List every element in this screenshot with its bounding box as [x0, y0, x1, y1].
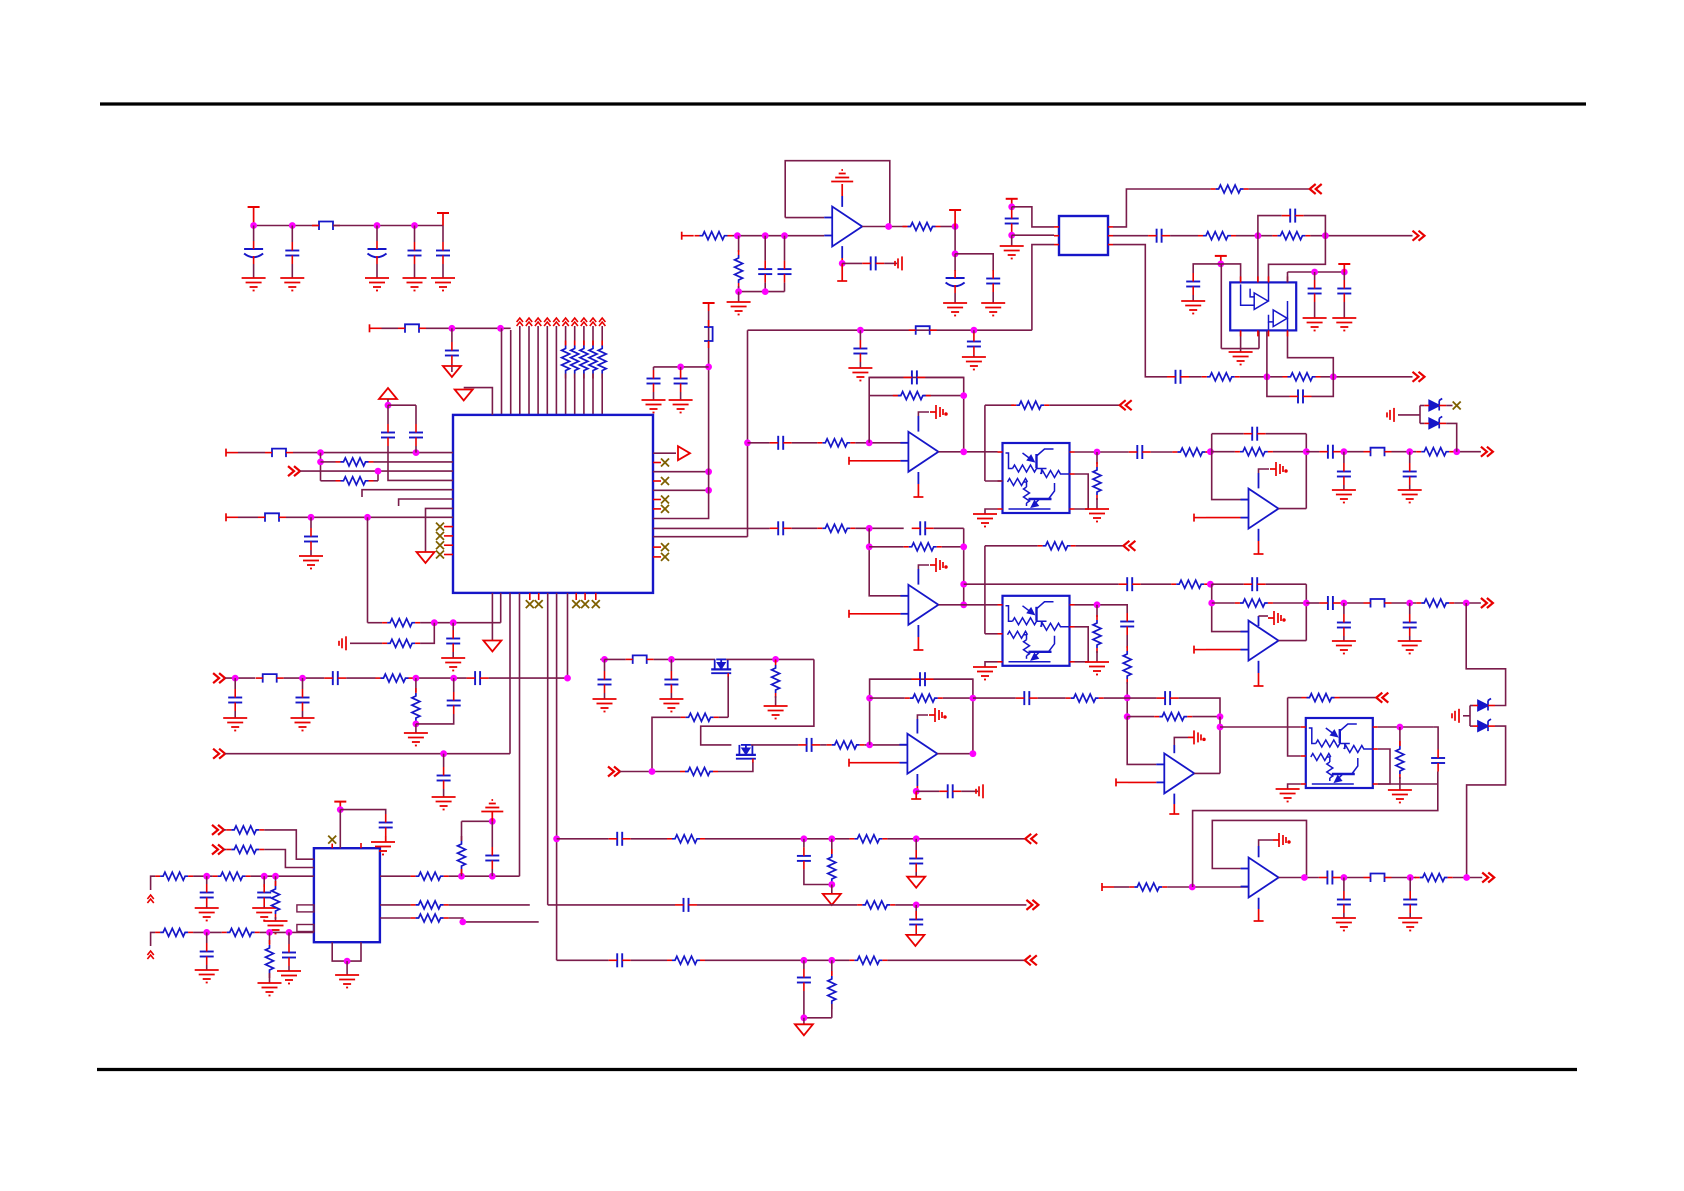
- wire: [519, 593, 521, 876]
- capacitor C66: [200, 951, 214, 953]
- junction: [1406, 448, 1413, 455]
- wire: [415, 721, 417, 724]
- capacitor C45: [1175, 370, 1177, 384]
- junction: [705, 468, 712, 475]
- opamp power: [1188, 730, 1205, 744]
- wire: [653, 489, 709, 491]
- junction: [299, 675, 306, 682]
- wire: [193, 931, 222, 933]
- power: [1011, 199, 1013, 207]
- wire: [557, 959, 609, 961]
- wire: [973, 330, 975, 333]
- wire: [1141, 583, 1172, 585]
- resistor R10: [1177, 448, 1205, 456]
- capacitor C47: [1186, 281, 1200, 283]
- IC T1: [1059, 216, 1108, 255]
- junction: [364, 514, 371, 521]
- wire: [350, 642, 382, 644]
- power VCC2: [442, 213, 444, 226]
- wire: [1258, 529, 1260, 541]
- power VCC1: [253, 207, 255, 226]
- wire: [416, 714, 454, 724]
- port in: [212, 825, 224, 835]
- wire: [831, 1004, 833, 1018]
- junction: [1094, 601, 1101, 608]
- junction: [289, 222, 296, 229]
- ground: [1229, 352, 1253, 365]
- IC U10: [314, 848, 380, 942]
- wire: [382, 327, 399, 329]
- wire: [895, 904, 1026, 906]
- resistor R39: [387, 639, 415, 647]
- wire: [1279, 640, 1307, 642]
- wire: [444, 544, 453, 546]
- capacitor C65: [257, 892, 271, 894]
- wire: [917, 472, 919, 484]
- feedback cap loop: [1267, 377, 1290, 397]
- power: [339, 802, 341, 810]
- resistor R16: [1123, 651, 1131, 679]
- wire: [451, 328, 453, 342]
- wire: [915, 872, 917, 877]
- wire: [653, 556, 661, 558]
- capacitor C42: [1005, 218, 1019, 220]
- wire: [917, 416, 919, 432]
- resistor R14: [1093, 620, 1101, 648]
- junction: [866, 742, 873, 749]
- capacitor C70: [1023, 691, 1025, 705]
- op-amp U8 inner feedback loop: [1212, 820, 1306, 877]
- wire: [555, 326, 557, 415]
- no-connect: [436, 541, 444, 549]
- ground: [258, 983, 282, 996]
- junction: [232, 675, 239, 682]
- ground: [291, 718, 315, 731]
- junction: [952, 250, 959, 257]
- wire: [461, 821, 463, 834]
- junction: [337, 806, 344, 813]
- wire: [803, 839, 805, 848]
- resistor R37: [412, 693, 420, 721]
- wire: [1113, 245, 1167, 377]
- wire: [1341, 602, 1363, 604]
- wire: [917, 625, 919, 637]
- wire: [415, 446, 417, 453]
- wire: [748, 329, 1032, 331]
- resistor R6: [1016, 401, 1044, 409]
- wire: [151, 932, 156, 946]
- wire: [938, 451, 997, 453]
- junction: [1407, 874, 1414, 881]
- polarized capacitor C14: [946, 277, 965, 279]
- wire: [653, 311, 709, 519]
- junction: [450, 675, 457, 682]
- wire: [916, 786, 918, 791]
- junction: [497, 325, 504, 332]
- ferrite bead FB2: [405, 324, 419, 333]
- wire: [680, 367, 682, 370]
- wire: [842, 262, 862, 264]
- wire: [548, 904, 675, 906]
- op-amp U6 feedback: [1212, 584, 1249, 631]
- capacitor C18: [911, 370, 913, 384]
- no-connect: [328, 836, 336, 844]
- wire: [1321, 376, 1413, 378]
- no-connect: [436, 523, 444, 531]
- wire: [1257, 236, 1259, 283]
- capacitor C35: [919, 672, 921, 686]
- wire: [574, 326, 576, 346]
- wire: [1220, 726, 1301, 728]
- ground: [981, 303, 1005, 316]
- wire: [916, 774, 918, 786]
- junction: [801, 1014, 808, 1021]
- wire: [963, 528, 965, 605]
- wire: [887, 838, 1025, 840]
- junction: [857, 327, 864, 334]
- capacitor C9: [304, 536, 318, 538]
- wire: [792, 527, 818, 529]
- wire: [1340, 697, 1377, 699]
- resistor R2: [341, 477, 369, 485]
- wire: [985, 545, 1038, 547]
- supply stub: [917, 637, 919, 650]
- wire: [764, 236, 766, 261]
- wire: [444, 526, 453, 528]
- resistor R7: [822, 439, 850, 447]
- wire: [733, 235, 825, 237]
- resistor R51: [272, 886, 280, 914]
- wire: [1378, 726, 1433, 728]
- capacitor C22: [1126, 577, 1128, 591]
- junction: [308, 514, 315, 521]
- ground: [252, 908, 276, 921]
- ground: [1452, 709, 1459, 723]
- wire: [538, 593, 540, 600]
- ferrite bead FB4: [265, 513, 279, 522]
- capacitor C10: [647, 378, 661, 380]
- capacitor C15: [986, 278, 1000, 280]
- capacitor C23: [1120, 621, 1134, 623]
- wire: [701, 659, 814, 745]
- resistor R11: [822, 524, 850, 532]
- wire: [414, 677, 467, 679]
- resistor R53: [227, 928, 255, 936]
- junction: [272, 873, 279, 880]
- wire: [1151, 451, 1173, 453]
- wire: [340, 810, 385, 814]
- ferrite bead FB1: [319, 222, 333, 231]
- pin mark: [297, 905, 314, 912]
- wire: [583, 326, 585, 346]
- ground: [1085, 509, 1109, 522]
- wire: [775, 659, 777, 662]
- wire: [1266, 330, 1268, 376]
- junction: [866, 695, 873, 702]
- resistor R43: [862, 901, 890, 909]
- capacitor C5: [436, 250, 450, 252]
- wire: [151, 876, 156, 890]
- resistor Rbus8: [589, 346, 597, 374]
- wire: [367, 517, 369, 622]
- capacitor C37: [1431, 757, 1445, 759]
- no-connect: [661, 543, 669, 551]
- wire: [859, 330, 861, 340]
- wire: [443, 754, 445, 767]
- wire: [1012, 207, 1054, 227]
- wire: [918, 412, 929, 416]
- wire: [855, 527, 903, 529]
- polarized capacitor C1: [244, 248, 263, 250]
- opamp power: [1268, 611, 1285, 625]
- wire: [1104, 697, 1157, 699]
- wire: [1269, 236, 1326, 283]
- transistor Q3: [711, 659, 731, 673]
- wire: [565, 374, 567, 415]
- wire: [583, 374, 585, 415]
- wire: [1011, 232, 1013, 235]
- input stub: [1101, 883, 1103, 891]
- resistor R20: [1421, 599, 1449, 607]
- wire: [1212, 433, 1244, 435]
- wire: [557, 838, 609, 840]
- wire: [841, 196, 843, 207]
- junction: [1463, 874, 1470, 881]
- wire: [1305, 434, 1307, 509]
- wire: [491, 812, 493, 821]
- wire: [380, 917, 411, 919]
- supply stub: [1258, 541, 1260, 554]
- wire: [1288, 271, 1345, 273]
- ground: [195, 908, 219, 921]
- capacitor C31: [1403, 622, 1417, 624]
- capacitor C32: [598, 679, 612, 681]
- junction: [413, 721, 420, 728]
- wire: [1258, 898, 1260, 909]
- wire: [1258, 330, 1260, 348]
- wire: [964, 583, 1119, 585]
- wire: [887, 959, 1024, 961]
- capacitor C26: [1337, 471, 1351, 473]
- ground: [973, 514, 997, 527]
- wire: [831, 882, 833, 885]
- capacitor C62: [616, 953, 618, 967]
- junction: [564, 675, 571, 682]
- wire: [1167, 886, 1248, 888]
- wire: [1126, 682, 1128, 717]
- wire: [601, 326, 603, 346]
- ferrite bead FB6: [916, 326, 930, 335]
- ground: [1332, 641, 1356, 654]
- capacitor C12: [758, 268, 772, 270]
- wire: [1305, 584, 1307, 640]
- ground: [195, 970, 219, 983]
- wire: [738, 236, 740, 252]
- resistor R12: [909, 543, 937, 551]
- ground: [1332, 318, 1356, 331]
- wire: [284, 677, 325, 679]
- junction: [960, 601, 967, 608]
- resistor Rbus6: [571, 346, 579, 374]
- wire: [831, 839, 833, 854]
- wire: [1467, 726, 1506, 877]
- wire: [705, 959, 849, 961]
- ground: [593, 699, 617, 712]
- wire: [464, 388, 493, 415]
- transistor Q4: [736, 745, 756, 759]
- wire: [1266, 433, 1307, 435]
- op-amp U5: [1249, 489, 1279, 529]
- wire: [1399, 727, 1401, 746]
- polarized capacitor C3: [368, 248, 387, 250]
- ground: [669, 400, 693, 413]
- capacitor C8: [409, 432, 423, 434]
- resistor R3: [700, 232, 728, 240]
- opamp power: [929, 708, 946, 722]
- analog ground symbol: [481, 800, 503, 812]
- wire: [984, 405, 986, 481]
- resistor R25: [910, 694, 938, 702]
- wire: [605, 658, 626, 660]
- junction: [1008, 232, 1015, 239]
- input stub: [369, 324, 371, 332]
- wire: [785, 217, 824, 219]
- junction: [489, 818, 496, 825]
- input stub: [848, 759, 850, 767]
- port in: [608, 767, 620, 777]
- capacitor C63: [797, 977, 811, 979]
- wire: [1126, 635, 1128, 648]
- ground: [339, 636, 346, 650]
- junction: [374, 222, 381, 229]
- ground: [895, 256, 902, 270]
- wire: [529, 593, 531, 600]
- capacitor C20: [777, 521, 779, 535]
- junction: [449, 325, 456, 332]
- op-amp U8: [1249, 858, 1279, 898]
- junction: [734, 232, 741, 239]
- wire: [1173, 745, 1175, 753]
- zener diode D1: [1429, 399, 1442, 411]
- junction: [970, 695, 977, 702]
- wire: [1075, 451, 1129, 453]
- wire: [388, 404, 416, 406]
- junction: [801, 957, 808, 964]
- wire: [1392, 877, 1417, 879]
- wire: [238, 516, 258, 518]
- wire: [415, 678, 417, 692]
- analog ground symbol: [831, 170, 853, 182]
- capacitor C49: [1337, 288, 1351, 290]
- wire: [1398, 414, 1420, 416]
- wire: [631, 959, 667, 961]
- port out: [1481, 598, 1493, 608]
- power down symbol: [455, 390, 473, 401]
- wire: [934, 527, 964, 529]
- ground: [659, 699, 683, 712]
- port out: [1310, 184, 1322, 194]
- junction: [971, 327, 978, 334]
- ground: [365, 278, 389, 291]
- wire: [1038, 697, 1066, 699]
- power down symbol: [823, 894, 841, 905]
- power down symbol: [795, 1024, 813, 1035]
- wire: [1189, 376, 1202, 378]
- wire: [300, 470, 453, 472]
- capacitor C2: [285, 250, 299, 252]
- transistor array Q1: [1003, 443, 1070, 513]
- junction: [913, 835, 920, 842]
- wire: [1219, 717, 1221, 774]
- no-connect: [661, 459, 669, 467]
- capacitor C30: [1337, 622, 1351, 624]
- wire: [917, 715, 928, 719]
- wire: [938, 604, 997, 606]
- wire: [1409, 603, 1411, 614]
- port out: [1482, 873, 1494, 883]
- no-connect: [1453, 402, 1461, 410]
- wire: [1128, 781, 1156, 783]
- wire: [453, 678, 455, 692]
- wire: [916, 719, 918, 734]
- junction: [705, 487, 712, 494]
- capacitor C67: [282, 952, 296, 954]
- wire: [654, 658, 716, 660]
- power chevron: [562, 318, 568, 326]
- resistor R22: [686, 713, 714, 721]
- port out: [1025, 955, 1037, 965]
- port in: [213, 749, 225, 759]
- capacitor C7: [381, 432, 395, 434]
- junction: [413, 675, 420, 682]
- power down symbol: [443, 366, 461, 377]
- wire: [584, 593, 586, 600]
- wire: [491, 821, 493, 847]
- ground: [280, 278, 304, 291]
- wire: [705, 838, 849, 840]
- ground: [1387, 408, 1394, 422]
- wire: [415, 405, 417, 424]
- wire: [1279, 508, 1307, 510]
- bottom border rule: [97, 1068, 1577, 1071]
- wire: [1032, 245, 1054, 331]
- junction: [203, 873, 210, 880]
- resistor R45: [854, 956, 882, 964]
- wire: [747, 330, 749, 537]
- junction: [411, 222, 418, 229]
- wire: [1259, 469, 1270, 473]
- wire: [388, 446, 453, 480]
- wire: [803, 1018, 805, 1025]
- ground: [1303, 318, 1327, 331]
- wire: [804, 869, 832, 884]
- resistor R34: [1207, 373, 1235, 381]
- resistor R50: [218, 872, 246, 880]
- junction: [431, 619, 438, 626]
- input stub: [1193, 514, 1195, 522]
- ground: [1181, 301, 1205, 314]
- wire: [653, 508, 661, 510]
- capacitor C58: [797, 855, 811, 857]
- junction: [1217, 261, 1224, 268]
- resistor R42: [828, 854, 836, 882]
- junction: [828, 957, 835, 964]
- port in: [288, 466, 300, 476]
- resistor Rbus7: [580, 346, 588, 374]
- input stub: [848, 610, 850, 618]
- wire: [399, 499, 453, 506]
- wire: [1454, 451, 1481, 453]
